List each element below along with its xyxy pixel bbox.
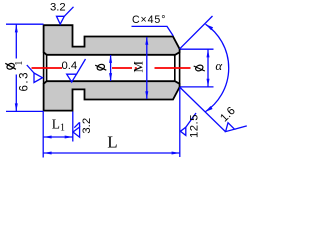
bore left chamfer circle edge — [46, 55, 48, 81]
dimension L1 — [43, 112, 72, 142]
svg-text:L1: L1 — [52, 117, 65, 134]
dimension L — [43, 88, 180, 158]
centerline — [32, 67, 191, 69]
part section top wall — [44, 25, 180, 55]
svg-text:6.3: 6.3 — [18, 73, 30, 92]
part section bottom wall — [44, 81, 180, 111]
svg-text:α: α — [215, 59, 222, 73]
phi glyph (right) — [194, 64, 205, 72]
finish 6.3 on left face — [27, 65, 43, 83]
svg-text:C×45°: C×45° — [132, 14, 166, 26]
svg-text:3.2: 3.2 — [50, 2, 66, 14]
dimension M — [146, 37, 148, 99]
angle alpha arc — [205, 24, 229, 112]
angle leg lower / chamfer surface extension — [180, 87, 226, 132]
svg-text:1.6: 1.6 — [218, 105, 238, 125]
svg-text:0.4: 0.4 — [62, 60, 78, 72]
dimension phi (bore) — [110, 55, 112, 81]
svg-text:L: L — [107, 133, 117, 152]
finish 1.6 (chamfer surface) — [226, 123, 247, 132]
phi glyph (bore) — [95, 63, 106, 71]
svg-text:3.2: 3.2 — [81, 118, 93, 134]
svg-text:1: 1 — [14, 61, 25, 66]
right face edge across bore — [179, 52, 181, 84]
dimension phi1 — [6, 24, 44, 111]
angle leg upper — [180, 16, 213, 49]
left face edge across bore — [43, 52, 45, 84]
finish 3.2 bottom (flange right face) — [73, 122, 80, 137]
svg-text:12.5: 12.5 — [189, 115, 201, 139]
svg-text:M: M — [131, 61, 146, 73]
dimension phi right — [181, 49, 214, 87]
bore right chamfer circle edge — [174, 55, 176, 81]
finish 12.5 (right end face) — [180, 113, 196, 135]
